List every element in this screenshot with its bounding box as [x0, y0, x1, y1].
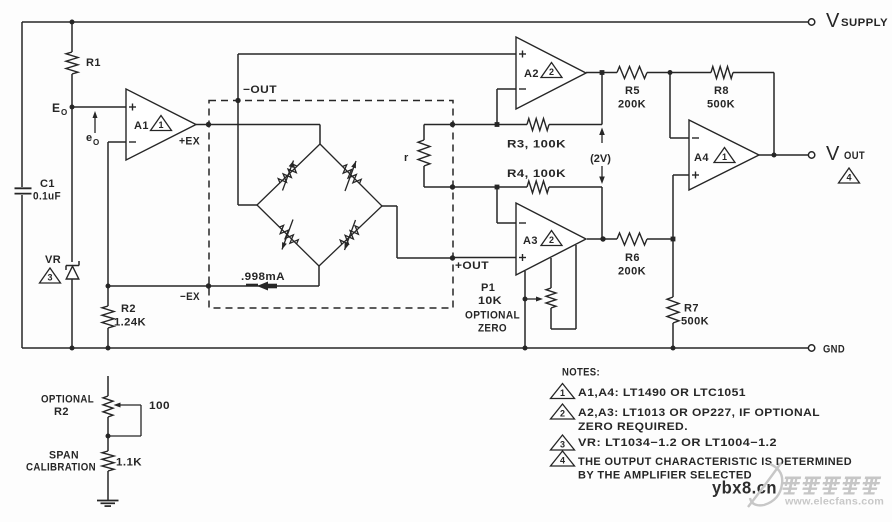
note symbol 1 at A1 — [151, 116, 172, 131]
svg-text:−OUT: −OUT — [243, 84, 277, 96]
note symbol 2 — [551, 404, 575, 419]
junction A4 output / R8 feedback — [772, 153, 777, 158]
bridge strain gauge edge upper-right — [320, 144, 382, 206]
watermark elecfans glyphs — [780, 477, 881, 495]
wire -OUT to A2 + input — [238, 53, 516, 55]
terminal V SUPPLY — [808, 19, 814, 25]
svg-text:VR: LT1034−1.2 OR LT1004−1.2: VR: LT1034−1.2 OR LT1004−1.2 — [578, 437, 777, 449]
op-amp A1 — [126, 89, 196, 160]
svg-text:V: V — [826, 143, 840, 165]
resistor R1 — [66, 52, 78, 74]
svg-text:O: O — [61, 108, 67, 117]
note symbol 4 — [551, 451, 575, 466]
svg-text:R2: R2 — [54, 406, 69, 418]
svg-text:10K: 10K — [478, 295, 502, 307]
svg-text:R6: R6 — [625, 252, 640, 264]
svg-text:ZERO REQUIRED.: ZERO REQUIRED. — [578, 421, 688, 433]
potentiometer P1 10K — [546, 288, 556, 308]
svg-text:2: 2 — [549, 235, 554, 245]
svg-text:VR: VR — [45, 254, 61, 266]
svg-text:R4, 100K: R4, 100K — [507, 168, 566, 180]
svg-text:OPTIONAL: OPTIONAL — [465, 310, 520, 322]
svg-text:1: 1 — [560, 388, 565, 398]
node on dashed boundary upper — [450, 122, 455, 127]
bridge strain gauge edge lower-left — [257, 205, 319, 266]
svg-text:A3: A3 — [523, 235, 538, 247]
wire pot to span resistor — [107, 417, 109, 451]
svg-text:+EX: +EX — [179, 136, 200, 148]
bridge strain gauge edge upper-left — [257, 144, 320, 205]
svg-text:SUPPLY: SUPPLY — [841, 17, 888, 29]
svg-text:0.1uF: 0.1uF — [33, 191, 61, 203]
note symbol 3 — [551, 435, 575, 450]
note symbol 1 at A4 — [714, 148, 735, 163]
resistor R6 200K — [617, 233, 647, 245]
wire P1 bottom to A3 trim pin right — [550, 308, 552, 329]
wire A2 output — [586, 72, 617, 74]
svg-text:1: 1 — [158, 120, 163, 130]
resistor r (bridge completion) — [424, 124, 453, 126]
wire R1 to node E0 — [71, 74, 73, 107]
svg-text:A1: A1 — [134, 120, 149, 132]
svg-text:(2V): (2V) — [590, 153, 611, 165]
note symbol 2 at A2 — [541, 63, 562, 78]
wire E0 to VR zener — [71, 107, 73, 262]
load cell dashed outline — [209, 101, 453, 309]
bridge strain gauge edge lower-right — [319, 206, 382, 266]
svg-text:2: 2 — [549, 67, 554, 77]
wire A4 output — [759, 154, 808, 156]
wire left vertical upper (to C1) — [21, 22, 23, 187]
wire +OUT to A3 + input — [453, 257, 517, 259]
svg-text:OUT: OUT — [844, 150, 865, 162]
capacitor C1 — [15, 187, 32, 189]
wire A3 trim pin left / wiper column — [524, 271, 526, 348]
wire E0 to A1 + input — [72, 106, 126, 108]
resistor R4 100K — [527, 181, 549, 193]
resistor R7 500K — [672, 239, 674, 297]
node +OUT on dashed boundary — [450, 255, 455, 260]
wire R6 to A4 + node — [647, 238, 673, 240]
svg-text:O: O — [93, 138, 99, 147]
optional R2 wiper arrow — [114, 403, 121, 408]
svg-text:500K: 500K — [681, 316, 709, 328]
svg-text:R3, 100K: R3, 100K — [507, 139, 566, 151]
junction A2 output — [600, 70, 605, 75]
svg-text:A4: A4 — [694, 152, 709, 164]
wire -OUT vertical from bridge left corner — [237, 54, 239, 205]
wire P1 top to A3 trim pin — [550, 258, 552, 288]
svg-text:CALIBRATION: CALIBRATION — [26, 462, 96, 474]
svg-text:1.24K: 1.24K — [114, 317, 146, 329]
resistor R3 100K — [527, 119, 549, 131]
wire bridge bottom corner to -EX — [318, 266, 320, 286]
op-amp A4 — [689, 120, 759, 190]
node on dashed boundary lower — [450, 184, 455, 189]
svg-text:3: 3 — [47, 273, 52, 283]
svg-text:R8: R8 — [714, 85, 729, 97]
svg-text:V: V — [826, 10, 840, 32]
wire bridge right corner to +OUT — [382, 205, 397, 207]
svg-text:r: r — [404, 152, 409, 164]
junction A3 feedback / R4 — [495, 185, 500, 190]
wire top supply rail — [22, 21, 808, 23]
op-amp A2 — [516, 37, 586, 109]
resistor R2 1.24K — [107, 286, 109, 306]
junction A2 feedback / R3 — [495, 122, 500, 127]
junction R7 / gnd rail — [671, 346, 676, 351]
node E0 — [70, 105, 75, 110]
svg-text:1.1K: 1.1K — [116, 457, 142, 469]
svg-text:GND: GND — [823, 344, 845, 356]
wire R3 to A2 output column — [549, 124, 602, 126]
svg-text:P1: P1 — [481, 282, 495, 294]
wire zener to gnd rail — [71, 279, 73, 348]
wire A3 - input feedback stub — [497, 222, 516, 224]
wire R8 to A4 output node — [733, 72, 774, 74]
svg-text:R7: R7 — [684, 303, 699, 315]
node +EX on dashed boundary — [206, 122, 211, 127]
wire A4 + input — [673, 174, 689, 176]
svg-text:C1: C1 — [40, 178, 55, 190]
note symbol 4 at V OUT — [839, 168, 860, 183]
junction top rail / R1 — [70, 20, 75, 25]
terminal V OUT — [808, 152, 814, 158]
svg-text:A2,A3: LT1013 OR OP227, IF OP: A2,A3: LT1013 OR OP227, IF OPTIONAL — [578, 407, 820, 419]
svg-text:−EX: −EX — [180, 291, 200, 303]
svg-text:NOTES:: NOTES: — [562, 367, 600, 379]
zener diode VR — [66, 265, 79, 267]
wire R1 top stub — [71, 22, 73, 52]
svg-text:A1,A4: LT1490 OR LTC1051: A1,A4: LT1490 OR LTC1051 — [578, 387, 746, 399]
junction A3 output — [600, 236, 605, 241]
svg-text:200K: 200K — [618, 266, 646, 278]
svg-text:www.elecfans.com: www.elecfans.com — [784, 496, 884, 508]
node -EX on dashed boundary — [206, 283, 211, 288]
svg-text:3: 3 — [560, 440, 565, 450]
wire r line lower / R4 — [453, 186, 528, 188]
junction P1 wiper — [523, 297, 528, 302]
svg-text:4: 4 — [846, 173, 851, 183]
annotation (2V) arrows — [601, 133, 603, 143]
junction wiper column / gnd rail — [523, 346, 528, 351]
resistor span calibration 1.1K — [102, 451, 114, 471]
svg-text:ZERO: ZERO — [478, 323, 507, 335]
wire A3 output — [587, 238, 617, 240]
svg-text:THE OUTPUT CHARACTERISTIC IS D: THE OUTPUT CHARACTERISTIC IS DETERMINED — [578, 456, 852, 468]
svg-text:R1: R1 — [86, 57, 101, 69]
svg-text:+OUT: +OUT — [455, 260, 489, 272]
svg-text:500K: 500K — [707, 99, 735, 111]
wire A1 output (+EX) into bridge — [196, 124, 320, 126]
terminal GND — [808, 345, 814, 351]
op-amp A3 — [516, 203, 586, 275]
note symbol 3 at VR — [40, 268, 61, 283]
svg-text:R5: R5 — [625, 85, 640, 97]
svg-text:OPTIONAL: OPTIONAL — [41, 394, 94, 406]
potentiometer optional R2 — [103, 396, 113, 417]
svg-text:.998mA: .998mA — [241, 271, 285, 283]
resistor R5 200K — [617, 67, 647, 79]
wire ground rail — [22, 347, 808, 349]
junction zener / gnd rail — [70, 346, 75, 351]
note symbol 1 — [551, 384, 575, 399]
note symbol 2 at A3 — [541, 231, 562, 246]
wire to ground symbol — [107, 471, 109, 500]
svg-text:SPAN: SPAN — [49, 450, 79, 462]
wire R5 to R8 — [647, 72, 711, 74]
wire R4 to A3 output column — [549, 186, 602, 188]
svg-text:2: 2 — [560, 409, 565, 419]
wire A2 - input feedback stub — [497, 88, 516, 90]
junction wiper / span resistor — [106, 434, 111, 439]
junction -EX / R2 column — [106, 284, 111, 289]
annotation e0 arrow — [94, 114, 96, 133]
wire left vertical lower (C1 to gnd rail) — [21, 195, 23, 348]
junction R6/R7/A4 + input — [671, 237, 676, 242]
svg-text:200K: 200K — [618, 99, 646, 111]
wire A4 - input — [670, 137, 689, 139]
node -OUT on dashed boundary — [235, 98, 240, 103]
wire r line upper / R3 — [453, 124, 528, 126]
svg-text:A2: A2 — [524, 68, 539, 80]
svg-text:1: 1 — [722, 152, 727, 162]
wire A1 - input to -EX node — [108, 141, 126, 143]
P1 wiper arrow — [525, 298, 536, 300]
wire optional R2 branch top — [107, 376, 109, 396]
resistor R8 500K — [711, 67, 733, 79]
svg-text:E: E — [52, 101, 60, 115]
svg-text:e: e — [86, 132, 92, 144]
svg-text:4: 4 — [560, 456, 565, 466]
junction R5/R8/A4 - input — [668, 70, 673, 75]
svg-text:100: 100 — [149, 400, 170, 412]
watermark logo swoosh — [748, 463, 782, 507]
svg-text:R2: R2 — [121, 303, 136, 315]
ground symbol — [97, 500, 119, 502]
